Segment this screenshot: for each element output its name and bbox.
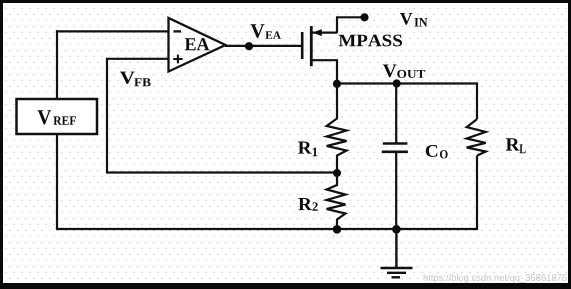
op-amp EA (error amplifier) xyxy=(169,18,226,72)
wire: VFB vertical run xyxy=(106,58,108,173)
MPASS gate bar xyxy=(301,32,304,59)
node dot VOUT at drain/R1 xyxy=(333,80,341,88)
wire: MPASS drain down to VOUT rail xyxy=(336,60,338,84)
resistor R1 xyxy=(327,84,347,173)
node VFB dot xyxy=(333,169,341,177)
terminal VIN dot xyxy=(360,13,368,21)
wire: MPASS source up xyxy=(336,17,338,33)
node dot R2 bottom xyxy=(333,225,342,234)
MPASS source arrow xyxy=(313,29,322,36)
label CO xyxy=(426,145,437,157)
label VIN xyxy=(400,13,412,25)
wire: VIN lead xyxy=(336,16,363,18)
wire: VREF bottom down to ground rail xyxy=(56,134,58,230)
node dot ground junction xyxy=(392,225,401,234)
CO top plate xyxy=(383,142,408,145)
watermark xyxy=(424,274,567,283)
transistor MPASS (PMOS pass device) xyxy=(302,26,338,66)
CO bottom plate xyxy=(382,151,408,154)
resistor R2 xyxy=(327,173,346,229)
EA inverting pin minus sign xyxy=(174,30,182,32)
node dot VOUT at CO xyxy=(393,79,401,87)
label VFB xyxy=(120,72,135,84)
EA non-inverting pin plus sign xyxy=(173,55,182,64)
label RL xyxy=(506,138,520,150)
wire: EA non-inverting input xyxy=(106,58,169,60)
wire: EA output to MPASS gate xyxy=(225,45,302,47)
wire: left rail down to VREF top xyxy=(56,30,58,99)
label VREF xyxy=(37,110,51,124)
label MPASS xyxy=(339,35,402,47)
wire: VOUT rail xyxy=(336,82,477,84)
MPASS drain lead xyxy=(311,59,338,61)
MPASS channel bar xyxy=(310,26,313,66)
wire: bottom ground rail xyxy=(56,228,478,230)
node VEA dot xyxy=(245,42,253,50)
wire: EA inverting input to left rail xyxy=(56,30,169,32)
label VEA xyxy=(251,24,265,38)
resistor RL xyxy=(467,119,486,156)
ground symbol xyxy=(381,229,413,277)
wire: CO branch top xyxy=(395,82,397,143)
label R1 xyxy=(298,142,312,154)
label VOUT xyxy=(383,64,397,77)
wire: RL branch verticals xyxy=(476,82,478,230)
label EA xyxy=(185,38,210,50)
capacitor CO xyxy=(382,144,408,152)
label R2 xyxy=(298,198,312,210)
wire: VFB horizontal run to R1/R2 node xyxy=(106,171,337,173)
wire: CO branch bottom xyxy=(395,152,397,230)
MPASS source lead xyxy=(311,31,337,33)
reference source VREF box xyxy=(17,99,98,134)
